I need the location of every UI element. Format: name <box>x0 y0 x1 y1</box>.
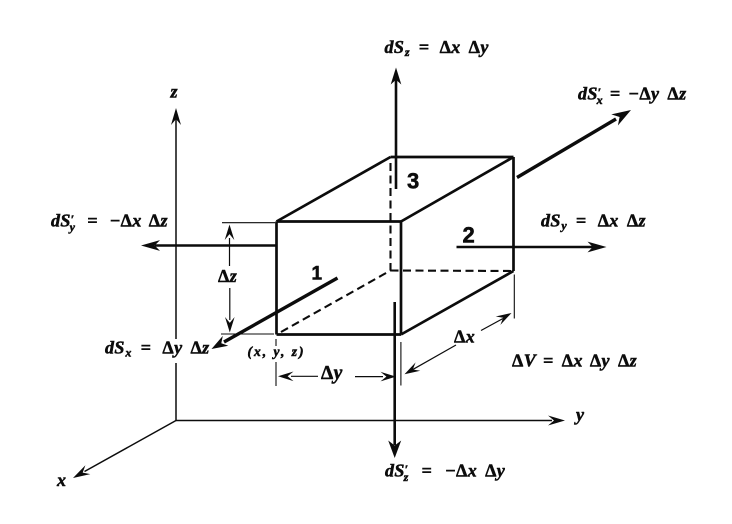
svg-text:x: x <box>56 470 66 490</box>
svg-text:Δz: Δz <box>218 266 237 286</box>
svg-text:3: 3 <box>407 169 420 194</box>
svg-text:Δx: Δx <box>454 327 475 347</box>
svg-text:Δy: Δy <box>321 363 343 384</box>
svg-text:y: y <box>574 405 585 425</box>
svg-text:dS′x=−ΔyΔz: dS′x=−ΔyΔz <box>578 84 687 108</box>
svg-text:dSz=ΔxΔy: dSz=ΔxΔy <box>385 37 490 59</box>
svg-text:dS′y=−ΔxΔz: dS′y=−ΔxΔz <box>51 211 168 235</box>
svg-text:2: 2 <box>463 223 476 248</box>
svg-text:1: 1 <box>312 264 323 285</box>
svg-text:ΔV=ΔxΔyΔz: ΔV=ΔxΔyΔz <box>512 351 637 371</box>
svg-text:dS′z=−ΔxΔy: dS′z=−ΔxΔy <box>385 461 506 485</box>
svg-text:(x, y, z): (x, y, z) <box>248 344 306 359</box>
svg-text:z: z <box>170 82 178 102</box>
svg-text:dSy=ΔxΔz: dSy=ΔxΔz <box>541 211 646 233</box>
